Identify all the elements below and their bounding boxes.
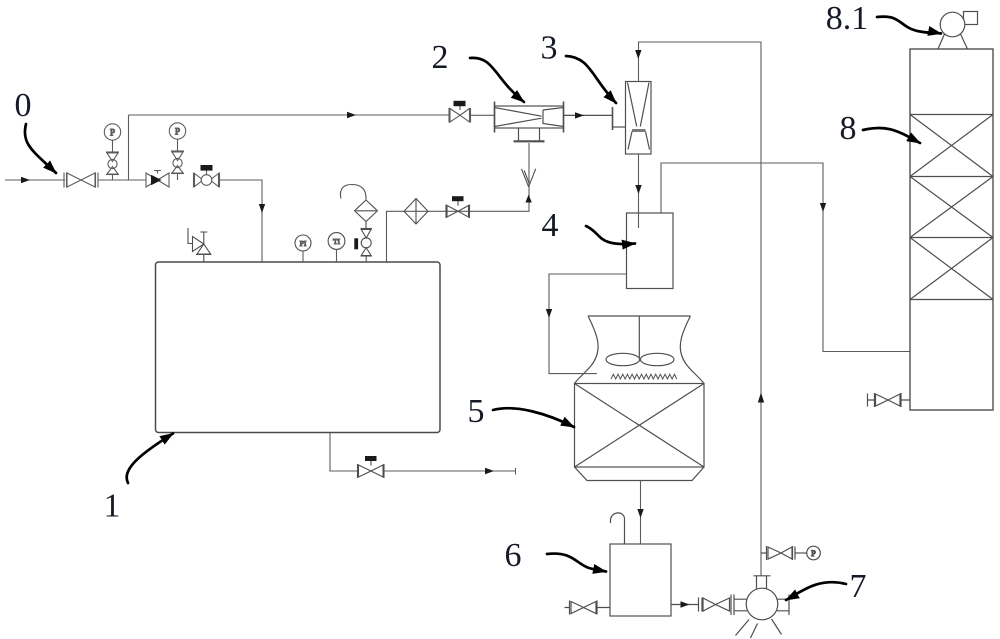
svg-text:5: 5 bbox=[468, 393, 485, 430]
svg-text:2: 2 bbox=[432, 39, 449, 76]
valve V01 inlet gate valve bbox=[64, 173, 98, 188]
label 8 leader arrow bbox=[863, 128, 920, 143]
svg-text:1: 1 bbox=[104, 488, 121, 525]
svg-text:7: 7 bbox=[850, 568, 867, 605]
wire riser to top line bbox=[128, 115, 130, 180]
tower fan blades bbox=[606, 353, 640, 365]
venturi scrubber 3 bbox=[613, 82, 652, 155]
tower bottom hopper bbox=[575, 467, 705, 481]
svg-text:0: 0 bbox=[15, 87, 32, 124]
label 0 leader arrow bbox=[25, 124, 56, 173]
column bottom valve V10 bbox=[868, 393, 911, 407]
pressure regulator PR2 with gauge P bbox=[169, 123, 185, 180]
svg-text:6: 6 bbox=[505, 537, 522, 574]
ejector 2 body bbox=[495, 102, 564, 142]
pump 7 bbox=[734, 576, 790, 638]
wire to tank riser bbox=[220, 180, 263, 262]
wire venturi to separator 4 bbox=[638, 154, 640, 228]
wire tank 1 bottom drain with valve V09 bbox=[330, 433, 358, 472]
wire tower to tank 6 bbox=[640, 481, 642, 545]
packed column 8 bbox=[910, 49, 993, 410]
strainer diamond on takeoff line bbox=[404, 199, 428, 225]
wire ejector outlet arrow to venturi bbox=[564, 114, 613, 116]
svg-text:4: 4 bbox=[542, 207, 559, 244]
wire between V01 and regulator bbox=[98, 179, 146, 181]
motor valve V03 on inlet line bbox=[194, 165, 220, 188]
cooling tower 5 shell bbox=[575, 316, 704, 384]
label 4 leader arrow bbox=[586, 226, 635, 244]
wire tank top takeoff line to ejector suction bbox=[387, 143, 530, 262]
motor valve V08 on takeoff line bbox=[446, 196, 470, 218]
wire valve to ejector bbox=[471, 114, 495, 116]
wire venturi top riser and top header to pump leg bbox=[639, 42, 762, 576]
svg-text:P: P bbox=[110, 128, 115, 138]
separator 4 bbox=[627, 213, 674, 289]
svg-text:PI: PI bbox=[300, 239, 307, 248]
relief valve on tank 1 bbox=[188, 228, 212, 262]
column packing bed X3 bbox=[910, 238, 993, 300]
column packing bed X2 bbox=[910, 177, 993, 238]
svg-text:P: P bbox=[811, 549, 816, 558]
tank 6 bbox=[610, 544, 671, 616]
label 6 leader arrow bbox=[547, 554, 606, 572]
svg-text:TI: TI bbox=[333, 237, 341, 246]
flow arrow on pump riser bbox=[758, 393, 764, 403]
svg-text:8: 8 bbox=[840, 110, 857, 147]
gauge TI on tank 1 bbox=[328, 233, 345, 250]
label 2 leader arrow bbox=[470, 58, 524, 102]
label 3 leader arrow bbox=[566, 56, 616, 103]
label 7 leader arrow bbox=[786, 582, 846, 600]
svg-text:P: P bbox=[175, 127, 180, 137]
breather diamond with gooseneck on tank 1 bbox=[340, 184, 377, 221]
fan 8.1 on column top bbox=[938, 12, 978, 50]
wire branch with valve V07 and gauge P on pump riser bbox=[761, 546, 820, 560]
column packing bed X1 bbox=[910, 115, 993, 177]
check valve V02 bbox=[146, 171, 169, 188]
label 5 leader arrow bbox=[493, 408, 574, 427]
wire inlet line left bbox=[5, 179, 65, 181]
tower packing box with X bbox=[575, 384, 705, 468]
tank 6 vent gooseneck bbox=[611, 513, 625, 544]
svg-text:3: 3 bbox=[541, 30, 558, 67]
tank 1 bbox=[156, 262, 441, 433]
label 8.1 leader arrow bbox=[877, 17, 941, 34]
wire tank 6 to pump 7 with valve V06 bbox=[671, 604, 699, 606]
gauge PI on tank 1 bbox=[295, 235, 311, 251]
hand control valve on tank 1 bbox=[354, 222, 372, 263]
pressure regulator PR1 with gauge P bbox=[104, 124, 120, 180]
svg-text:8.1: 8.1 bbox=[826, 0, 869, 37]
wire separator outlet riser to column 8 bbox=[661, 163, 910, 352]
tank 6 drain valve V05 bbox=[565, 601, 611, 615]
tower fan shaft bbox=[638, 316, 640, 358]
label 1 leader arrow bbox=[127, 434, 173, 484]
motor valve V04 before ejector bbox=[449, 101, 471, 123]
wire separator left to cooling tower bbox=[549, 274, 627, 374]
funnel sight glass on ejector suction bbox=[522, 169, 536, 187]
tower spray marks bbox=[611, 374, 677, 379]
wire top header line bbox=[129, 114, 450, 116]
